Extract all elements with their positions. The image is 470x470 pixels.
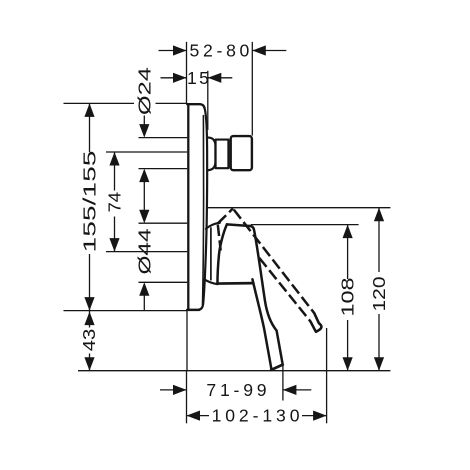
svg-text:Ø44: Ø44	[134, 228, 154, 274]
svg-text:71-99: 71-99	[206, 380, 270, 400]
svg-text:52-80: 52-80	[190, 41, 254, 61]
svg-text:102-130: 102-130	[212, 406, 304, 426]
svg-text:43: 43	[79, 329, 99, 352]
svg-text:120: 120	[369, 276, 389, 311]
svg-text:Ø24: Ø24	[134, 67, 154, 115]
svg-text:74: 74	[105, 192, 125, 213]
svg-text:15: 15	[187, 68, 211, 88]
svg-text:155/155: 155/155	[80, 150, 100, 252]
svg-text:108: 108	[338, 277, 358, 316]
